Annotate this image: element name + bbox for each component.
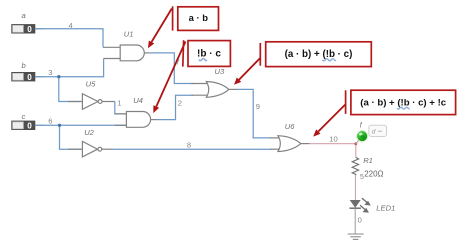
- svg-text:U5: U5: [86, 79, 96, 88]
- svg-text:d: d: [372, 129, 376, 136]
- svg-text:U1: U1: [124, 30, 134, 39]
- svg-text:U4: U4: [133, 96, 143, 105]
- spellcheck underline (!b: [322, 59, 336, 61]
- OR gate U6: [270, 136, 310, 152]
- callout bar 4: [345, 90, 347, 114]
- OR gate U3: [192, 82, 238, 98]
- arrow to net10 wire: [313, 105, 345, 137]
- svg-text:8: 8: [187, 141, 191, 150]
- LED emission arrow 2: [360, 205, 365, 209]
- switch c output stub: [35, 124, 44, 126]
- junction node 6: [58, 124, 61, 127]
- AND gate U1: [103, 45, 150, 61]
- NOT gate U5: [68, 94, 115, 110]
- wire net8: U2 out to U6 bottom input: [113, 148, 271, 150]
- svg-text:U2: U2: [84, 128, 94, 137]
- svg-text:2: 2: [178, 99, 182, 108]
- wire net3: b to junction, U1 bottom input, U5 input: [35, 59, 104, 102]
- svg-text:0: 0: [358, 216, 362, 225]
- callout bar 1: [172, 6, 174, 30]
- switch b output stub: [35, 76, 44, 78]
- svg-text:9: 9: [256, 102, 260, 111]
- ground: [348, 234, 364, 239]
- svg-text:a: a: [22, 11, 26, 20]
- svg-text:4: 4: [69, 21, 73, 30]
- LED1: [350, 198, 371, 213]
- probe f (green ball): [356, 130, 369, 143]
- svg-text:b: b: [22, 61, 26, 70]
- svg-text:(a · b) + (!b · c) + !c: (a · b) + (!b · c) + !c: [360, 98, 446, 109]
- junction node 3: [57, 75, 60, 78]
- callout bar 2: [182, 40, 185, 66]
- wire net6: c to junction, U4 bottom input, U2 input: [35, 125, 127, 149]
- wire net9: U3 out to U6 top input: [238, 89, 271, 137]
- wire net7: U1 out to U3 top input: [150, 53, 193, 84]
- wire net10: U6 out to probe junction (pink): [310, 144, 356, 158]
- spellcheck underline !b: [199, 59, 207, 61]
- svg-text:c: c: [22, 112, 26, 121]
- LED emission arrow 1: [362, 198, 367, 202]
- callout box: (a . b) + (!b . c) + !c: [351, 90, 456, 114]
- svg-text:U6: U6: [285, 122, 295, 131]
- svg-text:(a · b) + (!b · c): (a · b) + (!b · c): [285, 49, 353, 60]
- arrow to U4 output: [153, 42, 185, 114]
- NOT gate U2: [68, 141, 113, 157]
- svg-text:0: 0: [27, 121, 32, 130]
- arrow to U1 output: [148, 9, 172, 49]
- probe f connector: [356, 138, 361, 144]
- svg-text:!b · c: !b · c: [197, 48, 221, 59]
- input switch c: [12, 121, 35, 130]
- callout bar 3: [259, 43, 261, 66]
- AND gate U4: [115, 112, 156, 128]
- wire net4: a to U1 top input: [35, 29, 103, 48]
- svg-text:3: 3: [48, 68, 52, 77]
- input switch b: [12, 72, 35, 81]
- callout box: a . b: [178, 7, 219, 31]
- svg-text:1: 1: [117, 99, 121, 108]
- resistor R1: [352, 157, 358, 175]
- callout box: !b . c: [188, 41, 230, 67]
- wire net0: LED1 to ground: [354, 208, 356, 234]
- svg-text:0: 0: [27, 73, 32, 82]
- svg-text:6: 6: [48, 116, 52, 125]
- svg-text:0: 0: [27, 25, 32, 34]
- svg-text:220Ω: 220Ω: [364, 169, 383, 178]
- callout box: (a . b) + (!b . c): [266, 42, 372, 67]
- probe value box d: [369, 125, 387, 136]
- wire net1: U5 out to U4 top input: [115, 102, 127, 114]
- junction node 10: [354, 142, 357, 145]
- arrow to U3 output: [234, 58, 260, 85]
- svg-text:R1: R1: [363, 156, 373, 165]
- wire net2: U4 out to U3 bottom input: [156, 95, 193, 119]
- input switch a: [12, 25, 35, 34]
- svg-text:10: 10: [329, 135, 337, 144]
- wire net5: R1 to LED1: [354, 175, 356, 200]
- svg-text:LED1: LED1: [376, 204, 395, 213]
- svg-text:a · b: a · b: [189, 12, 209, 23]
- spellcheck underline (!b: [397, 107, 410, 109]
- svg-text:U3: U3: [215, 67, 225, 76]
- switch a output stub: [35, 28, 44, 30]
